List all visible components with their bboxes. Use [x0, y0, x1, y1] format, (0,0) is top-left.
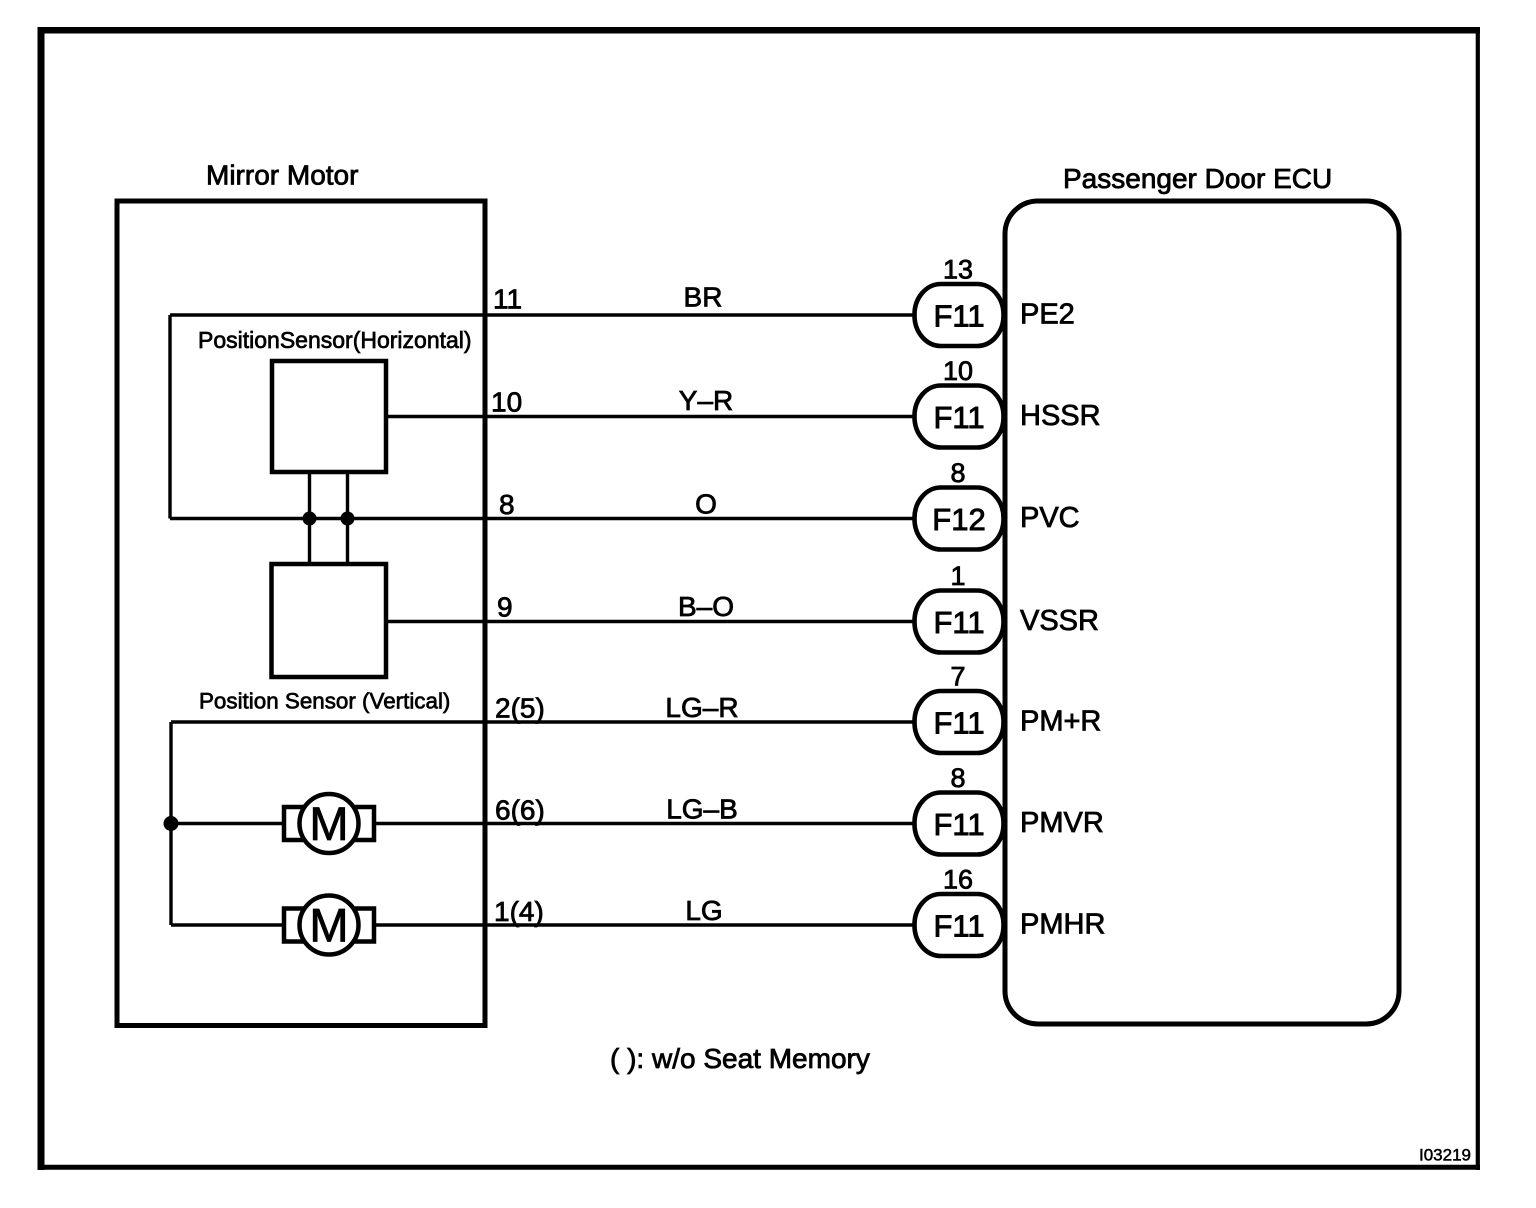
- svg-text:10: 10: [491, 387, 522, 418]
- svg-text:LG–R: LG–R: [665, 692, 738, 723]
- svg-text:( ): w/o Seat Memory: ( ): w/o Seat Memory: [610, 1043, 870, 1074]
- position sensor (vertical) element square: [272, 564, 387, 677]
- svg-text:F11: F11: [933, 605, 984, 640]
- svg-text:Passenger Door ECU: Passenger Door ECU: [1063, 163, 1332, 194]
- wire 2(5) LG-R (to connector F11 pin 7, net PM+R): [171, 720, 915, 723]
- svg-text:M: M: [309, 899, 348, 952]
- connector F11 pin 10 (HSSR): [915, 356, 1101, 448]
- svg-text:F11: F11: [933, 706, 984, 741]
- svg-text:BR: BR: [684, 282, 723, 313]
- svg-text:6(6): 6(6): [495, 795, 545, 826]
- svg-text:PMVR: PMVR: [1020, 807, 1104, 839]
- svg-text:10: 10: [943, 356, 973, 386]
- wire: sensor wiper vertical lines: [308, 472, 311, 563]
- wire 6(6) LG-B (motor to connector F11 pin 8, net PMVR): [171, 822, 915, 825]
- svg-text:HSSR: HSSR: [1020, 400, 1101, 432]
- junction dot on wire 8 (left wiper): [303, 512, 317, 526]
- svg-text:I03219: I03219: [1419, 1146, 1471, 1165]
- svg-text:F12: F12: [932, 502, 985, 537]
- svg-text:7: 7: [950, 662, 965, 692]
- svg-text:LG: LG: [685, 895, 722, 926]
- svg-text:2(5): 2(5): [495, 693, 545, 724]
- svg-text:Y–R: Y–R: [679, 385, 733, 416]
- svg-text:PVC: PVC: [1020, 502, 1080, 534]
- svg-text:F11: F11: [933, 400, 984, 435]
- svg-text:PE2: PE2: [1020, 299, 1075, 331]
- svg-text:F11: F11: [933, 909, 984, 944]
- svg-text:11: 11: [493, 284, 522, 315]
- motor M2 (horizontal mirror motor): [284, 896, 374, 955]
- svg-text:F11: F11: [933, 807, 984, 842]
- svg-text:M: M: [309, 797, 348, 850]
- svg-text:O: O: [695, 489, 717, 520]
- connector F11 pin 1 (VSSR): [915, 561, 1099, 653]
- svg-text:Mirror Motor: Mirror Motor: [206, 160, 358, 191]
- mirror motor enclosure box: [117, 201, 485, 1026]
- connector F11 pin 8 (PMVR): [915, 763, 1104, 855]
- svg-text:1(4): 1(4): [494, 896, 544, 927]
- connector F11 pin 16 (PMHR): [915, 865, 1106, 957]
- junction dot on motor common: [164, 816, 179, 831]
- svg-text:LG–B: LG–B: [666, 794, 738, 825]
- wire: position sensor loop left side: [168, 315, 171, 519]
- wire: motor common left side: [169, 722, 172, 925]
- wire 11 BR (pin 11 to connector F11 pin 13, net PE2): [170, 313, 915, 316]
- svg-text:B–O: B–O: [678, 591, 734, 622]
- connector F11 pin 13 (PE2): [915, 255, 1075, 347]
- svg-text:VSSR: VSSR: [1020, 605, 1099, 637]
- motor M1 (vertical mirror motor): [284, 794, 374, 853]
- wire 10 Y-R (sensor wiper to connector F11 pin 10, net HSSR): [388, 415, 915, 418]
- passenger door ECU box: [1005, 201, 1399, 1024]
- svg-text:F11: F11: [933, 299, 984, 334]
- svg-text:PMHR: PMHR: [1020, 909, 1105, 941]
- connector F12 pin 8 (PVC): [915, 458, 1080, 550]
- junction dot on wire 8 (right wiper): [341, 512, 355, 526]
- svg-text:PM+R: PM+R: [1020, 706, 1101, 738]
- svg-text:1: 1: [950, 561, 965, 591]
- wire 9 B-O (sensor wiper to connector F11 pin 1, net VSSR): [388, 620, 915, 623]
- svg-text:16: 16: [943, 865, 973, 895]
- svg-text:8: 8: [950, 763, 965, 793]
- wire 1(4) LG (motor to connector F11 pin 16, net PMHR): [171, 923, 915, 926]
- svg-text:13: 13: [943, 255, 973, 285]
- svg-text:Position Sensor (Vertical): Position Sensor (Vertical): [199, 689, 450, 714]
- connector F11 pin 7 (PM+R): [915, 662, 1102, 754]
- svg-text:8: 8: [950, 458, 965, 488]
- svg-text:PositionSensor(Horizontal): PositionSensor(Horizontal): [198, 327, 472, 353]
- position sensor (horizontal) element square: [272, 361, 386, 472]
- wire 8 O (common, to connector F12 pin 8, net PVC): [170, 517, 915, 520]
- svg-text:9: 9: [497, 592, 513, 623]
- svg-text:8: 8: [499, 489, 515, 520]
